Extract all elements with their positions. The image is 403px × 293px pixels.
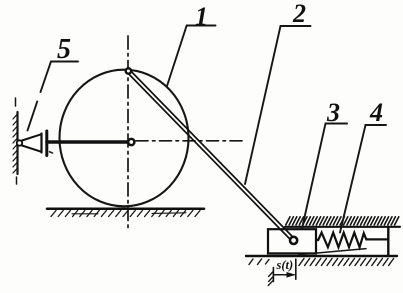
slider pin joint (rod to slider)	[290, 237, 297, 244]
label 4 digit	[369, 98, 383, 127]
slider block 3	[268, 229, 316, 253]
svg-text:4: 4	[369, 98, 383, 127]
dimension extension line at slider edge	[295, 259, 297, 279]
left wall (vertical support line)	[16, 112, 18, 174]
svg-text:2: 2	[292, 0, 306, 28]
dimension arrowhead	[287, 272, 296, 278]
right wall of spring housing	[387, 227, 389, 256]
stray stroke along bottom rail	[299, 249, 366, 255]
label 1 leader	[167, 26, 216, 87]
svg-text:s(t): s(t)	[276, 258, 294, 272]
dimension text s(t)	[276, 258, 294, 272]
left wall hatching	[13, 115, 17, 174]
label 4 leader	[340, 125, 386, 233]
top guide rail	[285, 226, 400, 228]
top rail hatching	[286, 217, 399, 225]
label 1 digit	[195, 2, 208, 31]
displacement dimension s(t): fixed reference tick with hatching	[268, 268, 273, 286]
label 2 digit	[292, 0, 306, 28]
upper pin joint (rod to wheel rim)	[126, 68, 131, 73]
svg-text:5: 5	[57, 34, 71, 65]
label 5 digit	[57, 34, 71, 65]
clevis fork of support 5	[22, 134, 42, 153]
wheel center pin	[128, 139, 134, 145]
spring 4 (zigzag)	[316, 233, 388, 248]
wheel 1 (large circle)	[60, 70, 189, 207]
bar end cap at clevis	[45, 131, 48, 156]
wall pin (pivot of support 5)	[17, 140, 22, 145]
stray scan mark	[50, 152, 53, 153]
crank bar (thick horizontal link from wall support to wheel center)	[47, 140, 129, 144]
bottom rail hatching	[249, 259, 394, 266]
connecting rod 2 (two parallel lines)	[127, 70, 295, 242]
vertical centerline (dash-dot axis of wheel)	[127, 36, 129, 232]
ground line under wheel	[47, 208, 204, 211]
ground hatching under wheel	[51, 211, 200, 217]
dimension arrow line	[273, 274, 294, 276]
label 3 digit	[326, 98, 340, 127]
horizontal centerline (dash-dot to the right of wheel center)	[136, 140, 246, 142]
label 5 leader (with dash gap)	[28, 62, 79, 131]
label 2 leader	[245, 26, 311, 184]
label 3 leader	[302, 124, 347, 229]
wall axis dash above support	[16, 98, 17, 184]
svg-text:1: 1	[195, 2, 208, 31]
bottom guide rail	[246, 255, 397, 257]
